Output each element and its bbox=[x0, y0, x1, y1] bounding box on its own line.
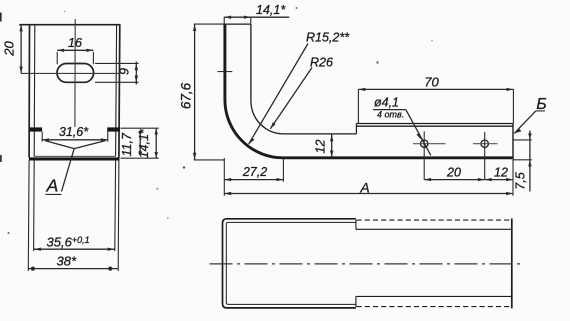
slot (obround hole) bbox=[57, 64, 94, 83]
front view left outer edge bbox=[28, 24, 30, 157]
left inner extension bbox=[33, 161, 36, 252]
dimension 35,6+0,1 bbox=[34, 248, 115, 251]
front view top edge bbox=[19, 24, 120, 26]
front view right inner edge bbox=[116, 25, 117, 156]
dimension 11,7 bbox=[121, 128, 159, 158]
hidden flange edge top (dashed) bbox=[357, 219, 512, 221]
bottom view center line bbox=[210, 263, 524, 265]
svg-text:11,7: 11,7 bbox=[120, 132, 134, 156]
svg-text:A: A bbox=[46, 176, 59, 196]
dimension 31,6* bbox=[42, 132, 108, 142]
svg-text:A: A bbox=[359, 180, 369, 196]
svg-text:7,5: 7,5 bbox=[514, 172, 528, 189]
svg-text:4 отв.: 4 отв. bbox=[377, 110, 404, 120]
right outer extension bbox=[117, 161, 120, 272]
bottom view step edge top bbox=[355, 220, 357, 230]
hole 1 bbox=[421, 140, 428, 147]
hidden flange edge bottom (dashed) bbox=[357, 306, 512, 308]
dimension 20 (left) bbox=[19, 24, 22, 73]
svg-text:12: 12 bbox=[313, 140, 327, 154]
svg-text:67,6: 67,6 bbox=[179, 82, 194, 109]
scan artifact specks bbox=[8, 232, 10, 234]
svg-text:31,6*: 31,6* bbox=[59, 125, 89, 139]
view label Б underline bbox=[536, 110, 545, 112]
vertical arm top edge bbox=[224, 23, 251, 25]
svg-text:9: 9 bbox=[117, 68, 131, 75]
hole 1 center lines bbox=[413, 143, 446, 145]
dimension 70 bbox=[358, 88, 513, 124]
bottom view web edge bottom (right portion) bbox=[356, 295, 512, 297]
section right flange bar bbox=[107, 127, 120, 131]
dimension 14,1* (arm) bbox=[224, 16, 289, 24]
view label A leader (V shape) bbox=[45, 141, 106, 192]
dimension 38* bbox=[28, 267, 118, 271]
hole leader line bbox=[406, 110, 431, 156]
svg-text:ø4,1: ø4,1 bbox=[374, 96, 399, 110]
slot vertical center line bbox=[74, 19, 76, 127]
scan artifact: left edge mark middle bbox=[0, 155, 2, 162]
slot position tick bbox=[218, 71, 233, 73]
leader Б bbox=[514, 111, 536, 133]
right inner extension bbox=[114, 161, 117, 252]
slot horizontal center line bbox=[21, 72, 120, 74]
svg-text:R15,2**: R15,2** bbox=[306, 31, 350, 45]
scan artifact: left edge mark top bbox=[0, 13, 2, 22]
bottom view right end edge bbox=[511, 218, 513, 308]
dimension 16 (slot width) bbox=[57, 49, 93, 65]
section bottom web bar bbox=[29, 157, 120, 160]
left outer extension bbox=[27, 161, 30, 272]
svg-text:14,1*: 14,1* bbox=[137, 128, 151, 158]
svg-text:70: 70 bbox=[424, 75, 439, 90]
svg-text:12: 12 bbox=[494, 166, 508, 180]
svg-text:38*: 38* bbox=[57, 254, 77, 269]
side view right end edge bbox=[512, 124, 514, 160]
svg-text:R26: R26 bbox=[310, 56, 333, 70]
svg-text:27,2: 27,2 bbox=[242, 165, 267, 179]
hole 2 bbox=[481, 140, 488, 147]
flange top line bbox=[356, 123, 513, 125]
bottom view web edge top (right portion) bbox=[356, 228, 512, 230]
svg-text:20: 20 bbox=[2, 41, 17, 57]
dimension 14,1* (section) bbox=[155, 128, 158, 158]
dimension 12 (inner height) bbox=[330, 135, 333, 158]
section left flange bar bbox=[29, 127, 42, 131]
leader R15,2** bbox=[249, 44, 308, 145]
front view right outer edge bbox=[118, 24, 121, 157]
front view left inner edge bbox=[33, 25, 36, 156]
section inner bottom line bbox=[34, 155, 116, 157]
bottom view step edge bottom bbox=[355, 296, 357, 307]
dimension 9 (slot height) bbox=[95, 62, 139, 85]
bottom view outer outline (left portion) bbox=[223, 219, 356, 308]
leader R26 bbox=[270, 68, 312, 129]
dimension 67,6 bbox=[193, 24, 225, 160]
svg-text:16: 16 bbox=[68, 36, 82, 50]
svg-text:14,1*: 14,1* bbox=[256, 3, 286, 17]
hole 2 center lines bbox=[473, 143, 498, 145]
extension lines below section bbox=[28, 161, 119, 272]
dimension 7,5 bbox=[513, 131, 532, 192]
inner contour: right edge + R15.2 inner bend + inner line bbox=[251, 24, 357, 134]
dimension A (overall length) bbox=[224, 158, 513, 196]
svg-text:20: 20 bbox=[446, 166, 461, 180]
bottom view inner outline bbox=[226, 222, 356, 304]
flange bend line bbox=[357, 125, 513, 127]
step edge bbox=[355, 124, 357, 134]
view label A underline bbox=[45, 193, 61, 195]
dimension 12 (hole to end) bbox=[485, 178, 513, 181]
dimension 27,2 bbox=[224, 158, 283, 182]
outer contour: left edge + R26 outer bend + bottom edge bbox=[225, 24, 513, 158]
dimension 20 (holes) bbox=[424, 178, 485, 181]
